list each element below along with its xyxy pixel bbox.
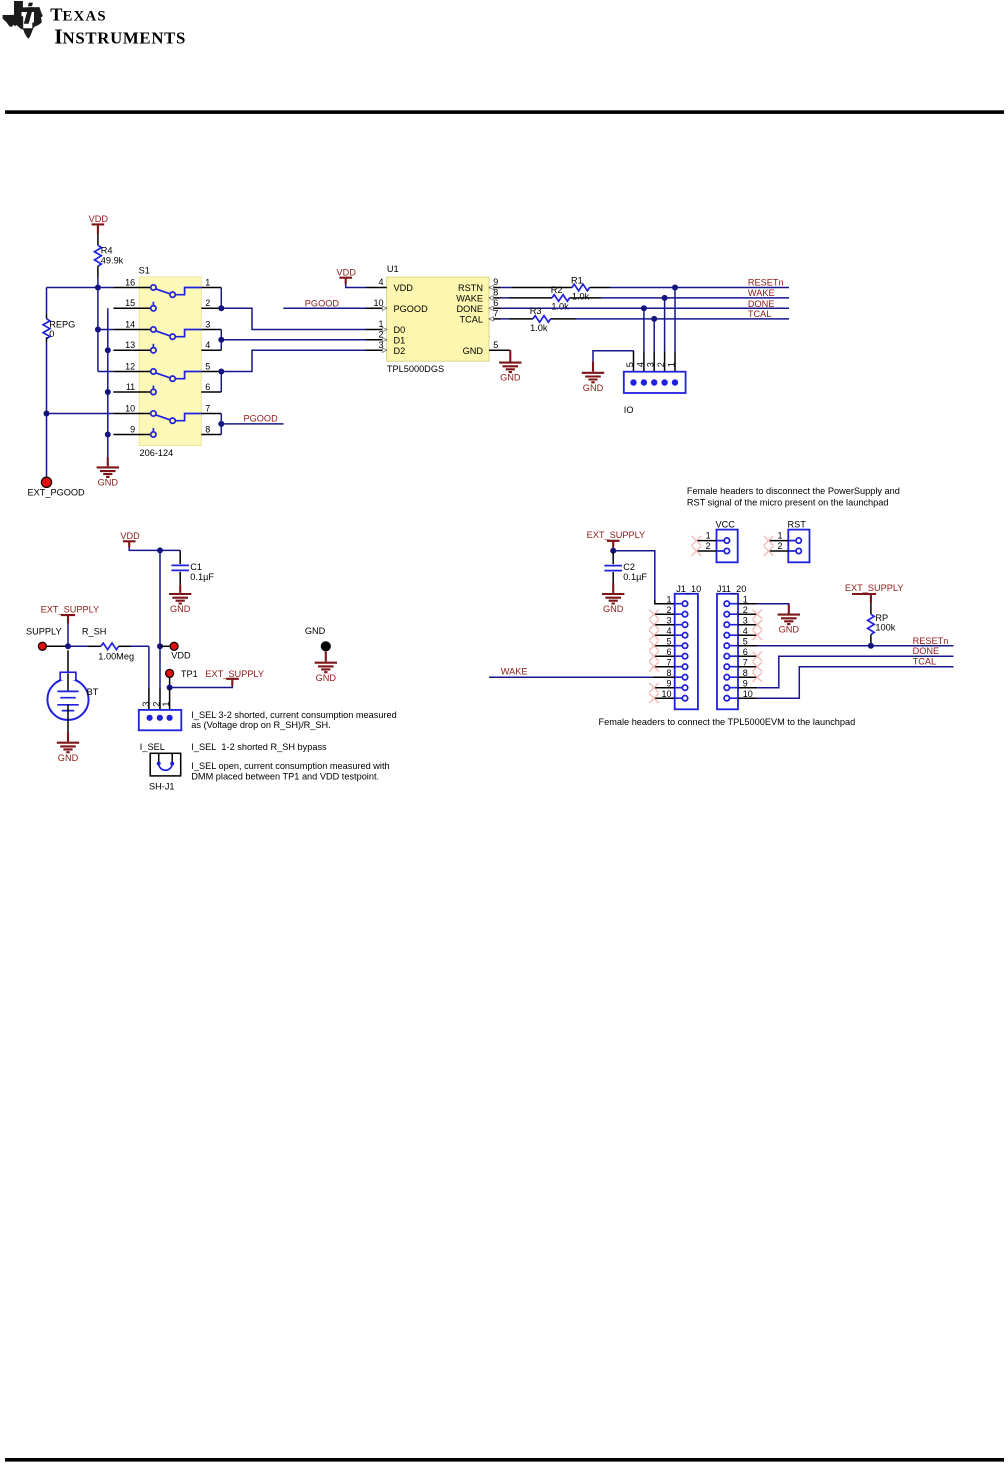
svg-text:5: 5 [625, 362, 635, 367]
ground GND (IO) [582, 362, 604, 393]
wire VDD to I_SEL pin2 [159, 646, 161, 688]
svg-text:12: 12 [125, 361, 135, 371]
svg-text:9: 9 [743, 678, 748, 688]
svg-text:1: 1 [666, 594, 671, 604]
power symbol EXT_SUPPLY (C2) [587, 530, 646, 547]
IO pin numbers (rotated) [625, 362, 677, 367]
resistor RP [868, 603, 875, 646]
junction C2 [610, 548, 616, 554]
U1 input pin arrows [382, 285, 493, 352]
svg-text:U1: U1 [387, 264, 399, 274]
svg-text:TCAL: TCAL [460, 315, 484, 325]
svg-text:WAKE: WAKE [748, 288, 775, 298]
svg-text:3: 3 [646, 362, 656, 367]
svg-text:2: 2 [706, 541, 711, 551]
header rule [5, 110, 1004, 114]
test point TP1 [166, 669, 174, 677]
junction VDD/C1 [157, 547, 163, 553]
svg-text:1.0k: 1.0k [551, 302, 569, 312]
wire TCAL to IO pin3 [653, 319, 655, 352]
footer rule [5, 1458, 1004, 1462]
connector J1_10 [675, 594, 698, 710]
wire RESETn (J11_20 pin5) [757, 645, 954, 647]
junction RESETn [672, 285, 678, 291]
wire VDD to U1 pin4 [346, 284, 366, 288]
svg-text:SH-J1: SH-J1 [149, 781, 175, 791]
svg-text:4: 4 [666, 626, 671, 636]
ground GND (U1 pin5) [499, 350, 521, 382]
U1 left pin stubs [366, 288, 387, 351]
svg-text:PGOOD: PGOOD [244, 413, 279, 423]
svg-text:6: 6 [493, 298, 498, 308]
S1 right pin numbers [205, 277, 210, 434]
svg-text:EXT_SUPPLY: EXT_SUPPLY [845, 583, 904, 593]
svg-text:VCC: VCC [716, 520, 736, 530]
RST pin stubs [768, 541, 789, 551]
svg-text:DMM placed between TP1 and VDD: DMM placed between TP1 and VDD testpoint… [191, 771, 379, 781]
svg-text:TP1: TP1 [181, 669, 198, 679]
svg-text:0: 0 [49, 329, 54, 339]
svg-text:3: 3 [666, 615, 671, 625]
svg-text:1: 1 [706, 530, 711, 540]
svg-text:4: 4 [378, 277, 383, 287]
svg-text:206-124: 206-124 [140, 448, 174, 458]
svg-text:Female headers to disconnect t: Female headers to disconnect the PowerSu… [687, 486, 900, 496]
svg-text:EXT_SUPPLY: EXT_SUPPLY [587, 530, 646, 540]
S1 left pin numbers [125, 277, 135, 434]
RST pin numbers [777, 530, 782, 550]
svg-text:PGOOD: PGOOD [394, 304, 429, 314]
wire TCAL (J11_20 pin10) [757, 667, 954, 699]
svg-text:7: 7 [205, 403, 210, 413]
svg-text:2: 2 [666, 605, 671, 615]
wire RSTN net [501, 287, 790, 289]
wire S1 pins 7-8 to PGOOD [221, 414, 283, 435]
svg-text:I_SEL 3-2 shorted, current con: I_SEL 3-2 shorted, current consumption m… [191, 710, 396, 720]
svg-text:6: 6 [743, 647, 748, 657]
IC U1 TPL5000DGS body [387, 277, 489, 361]
svg-text:10: 10 [743, 689, 753, 699]
wire RESETn to IO pin1 [674, 288, 676, 352]
no-connect X J1_10 pins 2-7,9,10 [649, 609, 659, 703]
ground GND (S1) [97, 457, 119, 488]
svg-text:EXT_SUPPLY: EXT_SUPPLY [41, 605, 100, 615]
svg-text:5: 5 [743, 636, 748, 646]
U1 pin names left [394, 283, 429, 356]
test point VDD [170, 642, 178, 650]
svg-text:6: 6 [666, 647, 671, 657]
svg-text:RESETn: RESETn [913, 636, 949, 646]
connector I_SEL [139, 710, 182, 730]
svg-text:RST: RST [788, 520, 807, 530]
svg-text:Female headers to connect the: Female headers to connect the TPL5000EVM… [599, 717, 856, 727]
resistor R3 [509, 316, 576, 323]
svg-text:TCAL: TCAL [748, 309, 772, 319]
svg-text:16: 16 [125, 277, 135, 287]
J1_10 pin numbers [661, 594, 671, 699]
svg-text:BT: BT [87, 687, 99, 697]
junction VDD testpoint [157, 643, 163, 649]
wire DONE to IO pin4 [643, 308, 645, 351]
svg-text:RP: RP [875, 613, 888, 623]
wire GND net (S1 pins 15,13,11,9) [107, 308, 109, 457]
svg-text:7: 7 [743, 657, 748, 667]
wire SUPPLY stub [46, 645, 68, 647]
svg-text:RST signal of the micro presen: RST signal of the micro present on the l… [687, 498, 889, 508]
U1 right pin stubs [489, 288, 510, 351]
wire VDD net to S1 pins 16,14,12 [47, 277, 114, 371]
svg-text:1: 1 [667, 362, 677, 367]
junction pin2 [218, 305, 224, 311]
ground GND (J11_20 pin1) [778, 605, 800, 635]
svg-text:TCAL: TCAL [913, 657, 937, 667]
resistor R_SH [68, 643, 149, 650]
svg-text:3: 3 [743, 615, 748, 625]
wire EXT_SUPPLY down to supply node [67, 624, 69, 647]
svg-text:WAKE: WAKE [501, 667, 528, 677]
svg-text:D1: D1 [394, 335, 406, 345]
svg-text:I_SEL open, current consumptio: I_SEL open, current consumption measured… [191, 761, 389, 771]
svg-text:13: 13 [125, 340, 135, 350]
test point GND (black) [321, 641, 331, 651]
wire PGOOD to U1 pin10 [283, 307, 366, 309]
wire S1 pins 3-4 to D1 [221, 330, 366, 351]
svg-text:4: 4 [205, 340, 210, 350]
junction RP/RESETn [868, 643, 874, 649]
ground GND (C2) [602, 583, 624, 614]
VCC pin stubs [696, 541, 717, 551]
svg-text:DONE: DONE [913, 646, 940, 656]
Texas Instruments logo [3, 1, 186, 49]
svg-text:D0: D0 [394, 325, 406, 335]
S1 pin stubs right (1-8) [201, 288, 221, 435]
svg-text:2: 2 [205, 298, 210, 308]
svg-text:J11_20: J11_20 [717, 584, 746, 594]
svg-text:S1: S1 [139, 266, 150, 276]
S1 switch element 2 (pins 14/13-3) [151, 327, 202, 353]
svg-text:J1_10: J1_10 [676, 584, 701, 594]
svg-text:VDD: VDD [89, 214, 109, 224]
junction pins7-8 mid [218, 421, 224, 427]
wire DONE net [501, 307, 790, 309]
S1 switch element 1 (pins 16/15-1) [151, 285, 202, 311]
no-connect X RST pin2 [764, 546, 774, 556]
wire TCAL net [501, 318, 790, 320]
power symbol EXT_SUPPLY (left) [41, 605, 100, 624]
wire VDD to C1 [129, 548, 180, 551]
wire WAKE to IO pin2 [664, 298, 666, 352]
wire EXT_SUPPLY node to J1_10 pin1 [613, 548, 655, 601]
wire EXT_SUPPLY to TP1 node [170, 686, 233, 688]
capacitor C1 [171, 550, 189, 584]
svg-text:2: 2 [151, 701, 161, 706]
wire REPG to EXT_PGOOD and S1 pin10 [47, 342, 114, 477]
svg-text:R3: R3 [530, 306, 542, 316]
svg-text:5: 5 [493, 340, 498, 350]
wire S1 pins 1-2 to D0 [221, 288, 366, 330]
power symbol EXT_SUPPLY (RP) [845, 583, 904, 603]
svg-text:R2: R2 [551, 285, 563, 295]
junction VDD/pin14 [95, 327, 101, 333]
svg-text:1.00Meg: 1.00Meg [98, 652, 134, 662]
no-connect X J11_20 pins 2,3,4,6,7,8 [753, 609, 763, 682]
svg-text:1: 1 [777, 530, 782, 540]
svg-text:4: 4 [743, 626, 748, 636]
ground GND (BT) [57, 732, 79, 763]
svg-text:as (Voltage drop on R_SH)/R_SH: as (Voltage drop on R_SH)/R_SH. [191, 720, 330, 730]
wire I_SEL pin1 stub [169, 688, 171, 715]
svg-text:R4: R4 [101, 246, 113, 256]
junction WAKE [662, 295, 668, 301]
S1 switch element 4 (pins 10/9-7) [151, 411, 202, 437]
junction pins3-4 mid [218, 337, 224, 343]
svg-text:WAKE: WAKE [456, 294, 483, 304]
U1 pin names right [456, 283, 483, 356]
svg-text:1: 1 [743, 594, 748, 604]
connector IO [624, 372, 686, 393]
svg-text:PGOOD: PGOOD [305, 299, 340, 309]
VCC pin numbers [706, 530, 711, 550]
svg-text:3: 3 [205, 319, 210, 329]
svg-text:IO: IO [624, 405, 634, 415]
svg-text:10: 10 [661, 689, 671, 699]
svg-text:SUPPLY: SUPPLY [26, 626, 62, 636]
svg-text:8: 8 [205, 424, 210, 434]
svg-text:VDD: VDD [394, 283, 414, 293]
jumper SH-J1 [150, 753, 181, 776]
junction TCAL [651, 316, 657, 322]
test point SUPPLY [38, 642, 46, 650]
no-connect X RST pin1 [764, 536, 774, 546]
svg-text:5: 5 [205, 361, 210, 371]
capacitor C2 [604, 551, 622, 584]
junction pin9/gnd [105, 432, 111, 438]
svg-text:2: 2 [656, 362, 666, 367]
power symbol VDD (U1 pin 4) [337, 267, 357, 284]
svg-text:14: 14 [125, 319, 135, 329]
svg-text:9: 9 [666, 678, 671, 688]
resistor R4 [95, 234, 102, 278]
S1 pin stubs left (16,15,14,13,12,11,10,9) [113, 288, 150, 435]
svg-text:INSTRUMENTS: INSTRUMENTS [54, 25, 186, 49]
svg-text:1.0k: 1.0k [530, 323, 548, 333]
resistor R1 [512, 284, 610, 291]
svg-text:1: 1 [161, 701, 171, 706]
resistor REPG [43, 288, 50, 343]
junction DONE [641, 305, 647, 311]
svg-text:0.1µF: 0.1µF [190, 572, 214, 582]
wire VDD vertical to supply row [159, 550, 161, 646]
svg-text:5: 5 [666, 636, 671, 646]
power symbol EXT_SUPPLY (TP1) [205, 669, 264, 686]
svg-text:DONE: DONE [748, 299, 775, 309]
svg-text:6: 6 [205, 382, 210, 392]
svg-text:C1: C1 [190, 562, 202, 572]
svg-text:8: 8 [666, 668, 671, 678]
svg-text:100k: 100k [875, 623, 895, 633]
svg-text:GND: GND [305, 626, 326, 636]
svg-text:D2: D2 [394, 346, 406, 356]
wire R_SH to I_SEL pin3 [148, 646, 150, 688]
power symbol VDD (top of R4) [89, 214, 109, 234]
svg-text:VDD: VDD [120, 531, 140, 541]
switch S1 206-124 [139, 277, 201, 446]
wire DONE (J11_20 pin9) [757, 656, 954, 688]
resistor R2 [509, 295, 601, 302]
svg-text:3: 3 [141, 701, 151, 706]
test point EXT_PGOOD [41, 477, 51, 487]
J1_10 pin stubs [653, 614, 675, 698]
svg-text:8: 8 [493, 288, 498, 298]
svg-text:VDD: VDD [171, 651, 191, 661]
svg-text:0.1µF: 0.1µF [623, 572, 647, 582]
svg-text:EXT_SUPPLY: EXT_SUPPLY [205, 669, 264, 679]
svg-text:C2: C2 [623, 562, 635, 572]
wire GND to IO pin5 [593, 351, 634, 362]
wire WAKE to J1_10 pin8 [489, 676, 653, 678]
junction VDD/pin16 [95, 285, 101, 291]
wire J11_20 pin1 to GND [757, 603, 789, 606]
svg-text:1: 1 [205, 277, 210, 287]
ground GND (testpoint) [315, 651, 337, 682]
wire TP1 to I_SEL pin1 [169, 677, 171, 687]
S1 switch element 3 (pins 12/11-5) [151, 369, 202, 395]
wire S1 pins 5-6 to D2 [221, 350, 366, 392]
connector J11_20 [717, 594, 738, 710]
connector RST [788, 530, 809, 563]
J11_20 pin numbers [743, 594, 753, 699]
junction pin5 [218, 369, 224, 375]
J11_20 pin stubs [738, 604, 757, 699]
svg-text:7: 7 [493, 309, 498, 319]
wire VDD testpoint stub [160, 645, 170, 647]
svg-text:I_SEL 1-2 shorted R_SH bypass: I_SEL 1-2 shorted R_SH bypass [191, 742, 327, 752]
svg-text:11: 11 [126, 382, 135, 392]
junction pin11/gnd [105, 389, 111, 395]
svg-text:RSTN: RSTN [458, 283, 483, 293]
wire WAKE net [501, 297, 790, 299]
junction pin10 tap [44, 411, 50, 417]
svg-text:DONE: DONE [456, 304, 483, 314]
ground GND (C1) [169, 585, 191, 615]
svg-text:9: 9 [130, 424, 135, 434]
svg-text:49.9k: 49.9k [101, 256, 124, 266]
junction TP1/EXT_SUPPLY [167, 685, 173, 691]
connector VCC [717, 530, 738, 563]
svg-text:10: 10 [125, 403, 135, 413]
svg-text:REPG: REPG [49, 319, 75, 329]
svg-text:1.0k: 1.0k [572, 291, 590, 301]
svg-text:TPL5000DGS: TPL5000DGS [387, 364, 444, 374]
no-connect X VCC pin2 [692, 546, 702, 556]
junction SUPPLY node [65, 643, 71, 649]
svg-text:VDD: VDD [337, 267, 357, 277]
svg-text:GND: GND [463, 346, 484, 356]
svg-text:I_SEL: I_SEL [140, 742, 165, 752]
battery BT [47, 650, 88, 732]
svg-text:2: 2 [743, 605, 748, 615]
U1 pin numbers left [373, 277, 383, 350]
svg-text:7: 7 [666, 657, 671, 667]
svg-text:15: 15 [125, 298, 135, 308]
svg-text:8: 8 [743, 668, 748, 678]
svg-text:R_SH: R_SH [82, 626, 107, 636]
svg-text:RESETn: RESETn [748, 278, 784, 288]
I_SEL pin numbers (rotated) [141, 701, 171, 706]
no-connect X VCC pin1 [692, 536, 702, 546]
power symbol VDD (C1) [120, 531, 140, 548]
svg-text:9: 9 [493, 277, 498, 287]
U1 pin numbers right [493, 277, 498, 350]
svg-text:EXT_PGOOD: EXT_PGOOD [28, 487, 86, 497]
svg-text:R1: R1 [571, 275, 583, 285]
junction pin13/gnd [105, 347, 111, 353]
svg-text:4: 4 [635, 362, 645, 367]
svg-text:2: 2 [777, 541, 782, 551]
